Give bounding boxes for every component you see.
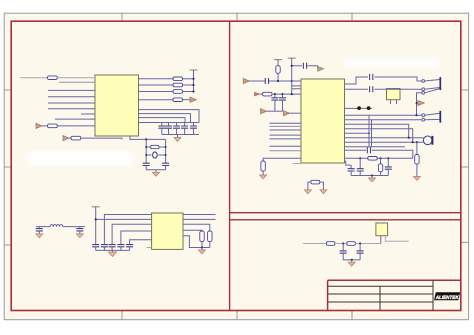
- resistor R5: [173, 83, 183, 87]
- capacitor C8: [36, 227, 43, 234]
- node nrst c1: [274, 93, 276, 95]
- wire B faint stub: [147, 247, 152, 249]
- capacitor C23: [367, 147, 370, 153]
- wire U1 pin7: [81, 113, 95, 115]
- title block red top edge: [328, 279, 461, 281]
- ground B right: [199, 248, 206, 254]
- label band white left: [27, 151, 133, 166]
- power port vbus: [418, 100, 425, 105]
- wire mic top: [345, 137, 424, 139]
- capacitor C6: [143, 163, 150, 170]
- node D2: [359, 242, 361, 244]
- node nrst tbar: [291, 93, 293, 95]
- node vcc r13: [277, 80, 279, 82]
- pin JP2-2: [422, 118, 425, 121]
- capacitor C26: [385, 158, 392, 175]
- resistor R15: [261, 161, 265, 175]
- wire U3 out1: [183, 214, 216, 216]
- wire U1 right pin d: [139, 99, 174, 101]
- node D1: [342, 242, 344, 244]
- power port right: [190, 97, 197, 102]
- node JP1 ends: [439, 77, 441, 79]
- resistor R13: [276, 66, 280, 81]
- wire U2 left pin3: [270, 129, 302, 131]
- node mic tap: [416, 141, 418, 143]
- wire U1 right pin g: [139, 118, 186, 123]
- wire tbar2 down: [291, 58, 293, 94]
- node bus dot2: [192, 84, 194, 86]
- node C gnd: [371, 174, 373, 176]
- capacitor C7: [162, 163, 169, 170]
- wire filter output: [63, 226, 85, 228]
- node D3: [351, 259, 353, 261]
- wire U2 left pin4: [270, 134, 302, 136]
- wire port pin6: [345, 146, 406, 148]
- op IC U1: [95, 75, 139, 136]
- node nrst c2: [281, 93, 283, 95]
- wire U2 vdd stubs: [292, 86, 301, 89]
- wire U1 pin4: [48, 96, 95, 98]
- node B out junction: [201, 246, 203, 248]
- title block table lines: [328, 280, 433, 310]
- wire U1 right pin e: [139, 110, 200, 123]
- wire U3 out4: [183, 229, 202, 232]
- resistor R18: [368, 157, 377, 161]
- wire vbus branch: [417, 93, 422, 115]
- wire usb dm: [345, 88, 422, 90]
- power rail bar C2: [288, 57, 296, 59]
- ground tie left: [304, 190, 311, 194]
- wire U3 out3: [183, 224, 210, 231]
- wire U2 left pin7: [270, 150, 302, 152]
- pin JP1-2: [422, 88, 425, 91]
- resistor R4: [173, 77, 183, 81]
- node rbias c: [387, 157, 389, 159]
- wire JP2 blades: [425, 113, 440, 120]
- wire R5 to bus: [183, 84, 194, 86]
- ALIENTEK logo: [434, 292, 460, 301]
- wire JP2 top: [345, 114, 422, 116]
- wire rbias run: [345, 157, 413, 159]
- wire crystal left rail: [145, 139, 147, 163]
- power port C right: [318, 66, 324, 71]
- capacitor C25: [357, 158, 364, 175]
- wire port pin5: [345, 132, 370, 134]
- wire cap bank feed: [345, 161, 352, 165]
- node rbias a: [359, 157, 361, 159]
- power port gnd arrow2: [284, 111, 290, 116]
- wire tie left: [308, 182, 311, 190]
- op IC U3: [152, 213, 183, 249]
- wire R7 to port: [183, 99, 191, 101]
- wire R3 to crystal node: [69, 138, 122, 139]
- node tbar2 mid: [291, 80, 293, 82]
- wire S1 left leg: [380, 236, 382, 244]
- connector bar JP1: [439, 78, 441, 89]
- ground C8: [36, 234, 43, 238]
- node JP2 ends: [439, 111, 441, 113]
- resistor R1: [48, 76, 58, 80]
- node mic bend: [412, 141, 414, 143]
- node rbias b: [379, 157, 381, 159]
- crystal X1 body: [387, 89, 401, 100]
- wire power bus vertical: [95, 207, 97, 245]
- wire U2 boot branch: [263, 158, 301, 161]
- resistor R7: [173, 98, 183, 102]
- wire U3 out2: [183, 218, 216, 220]
- wire U3 pin1 feed: [104, 215, 151, 245]
- frame zone ticks top: [122, 13, 352, 21]
- frame zone ticks left: [4, 90, 11, 245]
- node fat dot1: [357, 106, 361, 110]
- frame zone ticks right: [461, 90, 469, 242]
- wire U3 pin2 feed: [96, 218, 152, 220]
- wire U1 pin8: [55, 118, 95, 120]
- wire decoupling top bus: [160, 122, 199, 124]
- net flag nrst: [255, 92, 260, 96]
- red block divider horizontal upper: [230, 212, 461, 214]
- power port C left in: [243, 78, 249, 83]
- capacitor C1: [158, 123, 165, 135]
- wire nrst to U2: [260, 93, 302, 95]
- vertical link bus a: [368, 115, 370, 147]
- inductor L1: [50, 225, 63, 227]
- wire C gnd bus: [351, 175, 388, 177]
- wire U1 pin5: [48, 102, 95, 104]
- crystal Y1: [145, 152, 166, 158]
- capacitor C18: [265, 78, 268, 84]
- ground R17: [413, 177, 420, 181]
- wire port pin4: [345, 129, 413, 143]
- wire filter input: [36, 226, 50, 228]
- capacitor C16: [357, 244, 364, 260]
- op IC U2: [301, 79, 345, 163]
- wire D mid1: [335, 243, 347, 245]
- power port gnd arrow1: [261, 109, 267, 114]
- wire crystal gnd bus: [146, 169, 165, 171]
- wire U3 pin4 feed: [121, 231, 152, 245]
- resistor R11: [326, 242, 335, 246]
- title block red left edge: [327, 280, 329, 310]
- capacitor C2: [165, 123, 172, 135]
- power rail bar VCC: [190, 69, 198, 71]
- wire R1 to U1: [57, 77, 95, 79]
- capacitor C4: [181, 123, 188, 135]
- switch S1 body: [376, 223, 388, 236]
- ground crystal: [152, 170, 159, 176]
- svg-text:ALIENTEK: ALIENTEK: [435, 295, 459, 301]
- wire U1 right pin f: [139, 114, 191, 123]
- wire U1 pin1 net: [20, 77, 48, 79]
- node bus dot3: [192, 90, 194, 92]
- wire R6 to bus: [183, 91, 194, 93]
- node pin5 tap: [368, 132, 370, 134]
- wire S1 right leg: [385, 236, 408, 242]
- capacitor C13: [117, 245, 124, 251]
- wire caps gnd run: [267, 110, 283, 112]
- wire U2 bottom-left stub: [292, 163, 301, 165]
- wire bias down: [416, 142, 418, 154]
- wire X1 leg2: [396, 100, 398, 104]
- wire decoupling bottom bus: [162, 134, 199, 136]
- label band white right: [343, 59, 440, 68]
- wire JP2 bottom: [345, 119, 422, 121]
- speaker LS1: [423, 136, 433, 145]
- wire U2 left pin1: [270, 122, 302, 124]
- wire vcc in: [249, 80, 301, 82]
- ground D: [348, 260, 355, 266]
- node B power junction: [95, 218, 97, 220]
- capacitor C11: [101, 245, 108, 251]
- wire id pins: [345, 107, 373, 109]
- capacitor C15: [340, 244, 347, 260]
- wire tbar1 down: [277, 60, 279, 66]
- node JP2 junction: [415, 114, 417, 116]
- node bus dot1: [192, 78, 194, 80]
- node tbar2 top: [291, 65, 293, 67]
- power rail bar C1: [274, 59, 282, 61]
- resistor R12: [347, 242, 356, 246]
- power port VCC left: [36, 123, 42, 128]
- power port bottom left: [63, 136, 69, 141]
- frame zone ticks bottom: [122, 311, 352, 320]
- node crystal junction: [145, 138, 147, 140]
- wire R4 to bus: [183, 78, 194, 80]
- wire usb dp: [345, 77, 422, 84]
- wire U1 right pin a: [139, 78, 174, 80]
- capacitor C12: [109, 245, 116, 251]
- wire U1 pin3: [48, 89, 95, 91]
- red block divider vertical: [229, 21, 231, 310]
- wire U2 left pin5: [270, 138, 302, 140]
- wire U1 right pin c: [139, 91, 174, 93]
- capacitor C9: [76, 227, 83, 234]
- wire U1 crystal step: [130, 136, 166, 139]
- wire D mid2: [355, 243, 380, 245]
- pin JP1-3: [422, 91, 425, 94]
- wire tie right: [320, 182, 324, 190]
- capacitor C10: [92, 245, 99, 251]
- wire R2 to U1: [42, 125, 95, 127]
- ground C bank: [369, 176, 376, 182]
- wire mic bottom: [345, 141, 424, 143]
- resistor R17: [415, 155, 419, 177]
- capacitor C17: [303, 63, 306, 69]
- ground B bank: [109, 250, 117, 256]
- wire U1 pin6: [48, 108, 95, 110]
- connector bar JP2: [439, 112, 441, 122]
- wire U3 pin3 feed: [112, 224, 152, 244]
- wire U2 left pin6: [270, 145, 302, 147]
- wire X1 leg1: [390, 100, 392, 104]
- wire port pin3: [345, 124, 409, 138]
- capacitor C14: [126, 245, 133, 251]
- node vbus tap: [416, 102, 418, 104]
- wire D gnd bus: [343, 259, 360, 261]
- wire sense run: [345, 150, 413, 158]
- resistor R2: [48, 124, 58, 128]
- power rail bar B: [92, 206, 100, 208]
- ground cap bank: [174, 135, 181, 142]
- wire U1 right pin b: [139, 84, 174, 86]
- resistor R19: [378, 158, 382, 175]
- wire arrow2 to U2: [290, 112, 302, 114]
- wire D input: [303, 243, 326, 245]
- ground R15: [260, 175, 267, 179]
- wire U1 pin2: [59, 81, 95, 83]
- ground tie right: [320, 190, 327, 194]
- vertical link bus b: [371, 120, 373, 147]
- capacitor C3: [173, 123, 180, 135]
- resistor R6: [173, 90, 183, 94]
- wire crystal right rail: [165, 139, 167, 163]
- wire B gnd bus: [96, 249, 130, 251]
- wire U2 left pin2: [270, 125, 302, 127]
- resistor R14: [263, 92, 273, 96]
- resistor R10: [208, 231, 212, 248]
- wire JP1 blades: [425, 80, 440, 93]
- wire pull-up bus: [193, 70, 195, 92]
- resistor R9: [200, 231, 204, 248]
- red block divider horizontal lower: [230, 219, 461, 221]
- pin JP1-1: [422, 80, 425, 83]
- resistor R16 ground tie: [311, 180, 320, 184]
- capacitor C5: [190, 123, 197, 135]
- pin JP2-1: [422, 114, 425, 117]
- wire U3 pin5 feed: [130, 240, 152, 245]
- capacitor C20: [279, 94, 286, 111]
- ground C9: [76, 234, 83, 238]
- wire vdda run: [292, 66, 318, 69]
- capacitor C19: [271, 94, 278, 111]
- node mic top: [408, 137, 410, 139]
- capacitor C21: [370, 74, 373, 80]
- resistor R3: [71, 136, 81, 140]
- capacitor C22: [370, 86, 373, 92]
- wire U1 right pin h: [139, 122, 161, 124]
- wire U3 bottom branch: [183, 236, 210, 248]
- node fat dot2: [367, 106, 371, 110]
- capacitor C24: [348, 165, 355, 175]
- resistor R8: [145, 145, 166, 148]
